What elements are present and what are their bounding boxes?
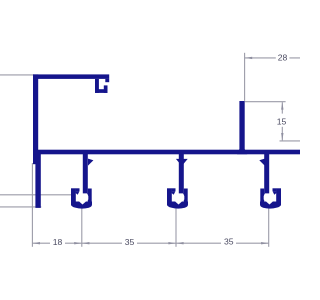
extension line bottom of 15 dim (cut off at right) (280, 140, 301, 142)
extension line top of 15 dim (245, 101, 286, 103)
extension line left lower (cropped dimension) (0, 206, 41, 208)
svg-text:28: 28 (278, 53, 288, 63)
arrowhead 35b left (176, 242, 184, 244)
hook 3 (mirrored) (260, 154, 281, 209)
arrowhead 35a left (82, 242, 90, 244)
arrowhead 15 top (281, 102, 283, 110)
extension line left mid (cropped dimension) (0, 194, 72, 196)
dimension line 28 (cut off at right) (245, 57, 300, 59)
top hook C bottom (95, 89, 108, 93)
svg-text:35: 35 (224, 236, 234, 246)
hook 3 barb (259, 159, 264, 166)
svg-text:35: 35 (125, 237, 135, 247)
profile main bar (33, 150, 300, 155)
hook 1 barb (88, 159, 93, 166)
arrowhead 18 right (74, 242, 82, 244)
arrowhead 28 left (245, 57, 253, 59)
extension line under hook 3 (268, 208, 270, 247)
arrowhead 15 bottom (281, 133, 283, 141)
extension line for 28 dim (244, 53, 246, 101)
extension line under hook 1 (81, 208, 83, 247)
top hook C wall (95, 79, 99, 93)
top hook lip down (105, 79, 109, 82)
svg-text:15: 15 (277, 116, 287, 126)
profile left leg (35, 154, 40, 208)
arrowhead 35b right (261, 242, 269, 244)
profile left wall (33, 74, 38, 164)
profile top bar (33, 74, 109, 79)
top hook C bottom lip up (104, 85, 108, 93)
extension line for 18 dim at profile left edge (31, 163, 33, 247)
hook 2 (167, 154, 188, 209)
text mask patches (50, 53, 289, 246)
arrowhead 35a right (168, 242, 176, 244)
extension line under hook 2 (175, 208, 177, 247)
bottom dimension line (32, 242, 268, 244)
dimension line 15 (281, 102, 283, 140)
hook 2 arrow barb (176, 159, 188, 166)
profile upstand (15/28 reference) (237, 101, 247, 154)
hook 1 (71, 154, 92, 209)
arrowhead 18 left (32, 242, 40, 244)
svg-text:18: 18 (53, 237, 63, 247)
extension line left top (cropped dimension) (0, 74, 34, 76)
